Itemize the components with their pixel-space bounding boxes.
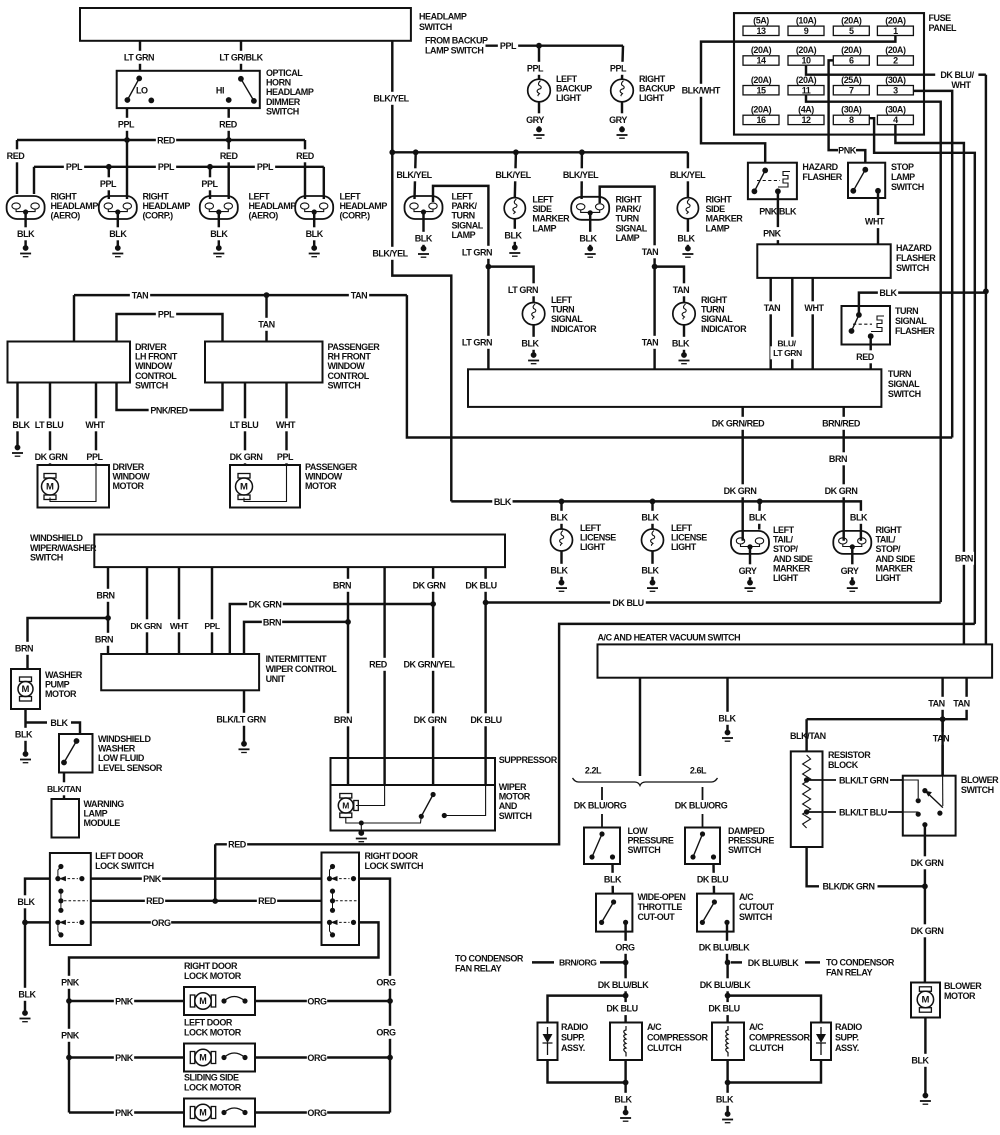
svg-text:LEFT: LEFT (551, 295, 573, 305)
wire DK GRN wiper switch to suppressor (432, 567, 434, 785)
svg-text:DK GRN: DK GRN (130, 621, 161, 631)
stop lamp switch (848, 163, 885, 198)
svg-text:BACKUP: BACKUP (556, 84, 592, 94)
hazard flasher (748, 163, 797, 200)
svg-text:LIGHT: LIGHT (876, 573, 902, 583)
left headlamp (corp) connector (295, 196, 333, 219)
svg-text:WIPER/WASHER: WIPER/WASHER (30, 543, 97, 553)
svg-text:PPL: PPL (158, 309, 175, 319)
fuse 16 (20A) (743, 115, 779, 124)
svg-text:15: 15 (756, 85, 766, 95)
svg-text:WHT: WHT (865, 217, 885, 227)
svg-text:RIGHT: RIGHT (616, 195, 643, 205)
ground right park/turn lamp (589, 213, 591, 249)
svg-text:PPL: PPL (201, 179, 218, 189)
svg-text:BLK: BLK (18, 989, 36, 999)
wire RED wiper switch to suppressor (383, 567, 385, 785)
svg-text:DK GRN: DK GRN (724, 486, 757, 496)
svg-text:DK BLU/BLK: DK BLU/BLK (598, 980, 649, 990)
svg-text:LT BLU: LT BLU (35, 420, 64, 430)
svg-text:RH FRONT: RH FRONT (328, 352, 372, 362)
svg-text:SWITCH: SWITCH (266, 106, 299, 116)
svg-text:RIGHT DOOR: RIGHT DOOR (184, 961, 238, 971)
svg-text:WHT: WHT (804, 303, 824, 313)
svg-text:BLK/LT BLU: BLK/LT BLU (839, 807, 887, 817)
svg-text:BLK: BLK (521, 338, 539, 348)
svg-text:DK BLU: DK BLU (606, 1004, 637, 1014)
svg-text:6: 6 (849, 56, 854, 66)
left tail/stop/side marker light connector (731, 531, 769, 554)
svg-text:(20A): (20A) (885, 45, 906, 55)
svg-text:BLK: BLK (614, 1094, 632, 1104)
svg-text:LIGHT: LIGHT (671, 542, 697, 552)
svg-text:BRN: BRN (829, 454, 847, 464)
right side marker lamp (677, 198, 698, 219)
svg-text:HORN: HORN (266, 78, 291, 88)
wire DK BLU/ORG to low pressure switch (601, 787, 603, 800)
svg-text:LEFT: LEFT (532, 195, 554, 205)
svg-text:ORG: ORG (151, 918, 171, 928)
svg-text:BLOWER: BLOWER (961, 775, 999, 785)
svg-text:2: 2 (893, 56, 898, 66)
wire PPL to right headlamp aero right term (33, 167, 35, 194)
svg-text:FAN RELAY: FAN RELAY (455, 964, 502, 974)
svg-text:HEADLAMP: HEADLAMP (266, 87, 314, 97)
svg-text:(4A): (4A) (798, 105, 814, 115)
svg-text:PNK/BLK: PNK/BLK (759, 207, 797, 217)
fuse 6 (20A) (833, 56, 869, 65)
svg-text:STOP: STOP (891, 162, 914, 172)
ground left park/turn lamp (422, 212, 424, 249)
svg-text:ORG: ORG (376, 1027, 396, 1037)
svg-text:MARKER: MARKER (706, 214, 744, 224)
svg-text:PNK: PNK (61, 1030, 80, 1040)
wire TAN to passenger window switch (265, 295, 267, 341)
fuse 11 (20A) (788, 86, 824, 95)
wire BLK from turn signal flasher to DK BLU/WHT riser (859, 293, 986, 315)
windshield wiper/washer switch (94, 535, 505, 568)
wire LT GRN from headlamp switch to dimmer (139, 41, 141, 71)
right tail/stop/side marker light connector (833, 531, 871, 554)
ground right side marker (687, 219, 689, 249)
wire BLK to left license light 2 (651, 501, 653, 529)
svg-text:BRN: BRN (263, 617, 281, 627)
svg-text:PNK: PNK (115, 996, 134, 1006)
svg-text:DK GRN/YEL: DK GRN/YEL (403, 659, 455, 669)
svg-text:MARKER: MARKER (532, 214, 570, 224)
svg-text:HAZARD: HAZARD (802, 162, 838, 172)
radio supp assy right (811, 1023, 831, 1061)
wire PNK from fuse 6 to stop lamp switch (829, 60, 838, 150)
svg-text:BLK/YEL: BLK/YEL (495, 170, 531, 180)
svg-text:OPTICAL: OPTICAL (266, 68, 303, 78)
svg-text:WINDOW: WINDOW (305, 472, 343, 482)
right headlamp (corp) connector (99, 196, 137, 219)
svg-text:LT GRN: LT GRN (773, 348, 802, 358)
wire DK BLU/ORG to damped pressure switch (702, 787, 704, 800)
svg-text:DK GRN: DK GRN (414, 715, 447, 725)
wire BLK tap to level sensor (26, 721, 48, 723)
svg-text:BRN: BRN (15, 643, 33, 653)
svg-text:DK GRN: DK GRN (413, 580, 446, 590)
ground left license light 2 (651, 551, 653, 583)
svg-text:TO CONDENSOR: TO CONDENSOR (826, 958, 895, 968)
svg-text:(CORP.): (CORP.) (340, 211, 371, 221)
svg-text:M: M (46, 482, 54, 493)
wire TAN to right turn indicator (655, 267, 684, 303)
svg-text:BRN/ORG: BRN/ORG (559, 958, 597, 968)
wire TAN to blower switch (941, 719, 943, 776)
resistor block (791, 751, 823, 847)
svg-text:LAMP: LAMP (452, 230, 476, 240)
wire PPL to left headlamp aero left term (209, 167, 211, 199)
svg-text:CLUTCH: CLUTCH (647, 1043, 681, 1053)
RED rail to headlamps (17, 139, 305, 141)
svg-text:A/C: A/C (739, 892, 754, 902)
svg-text:GRY: GRY (609, 115, 627, 125)
svg-text:MARKER: MARKER (876, 563, 914, 573)
DK BLU rail to blower circuit (486, 601, 941, 603)
svg-text:BLK: BLK (672, 338, 690, 348)
wire BLK/LT GRN resistor tap to blower switch (807, 779, 836, 781)
svg-text:BLK/YEL: BLK/YEL (563, 170, 599, 180)
svg-text:RIGHT: RIGHT (143, 192, 170, 202)
left radio suppressor jog (548, 996, 626, 1023)
windshield washer low fluid level sensor (59, 734, 93, 773)
wire LT GRN from left park/turn to indicator circuit (433, 186, 488, 267)
washer pump motor (11, 669, 40, 709)
svg-text:SIGNAL: SIGNAL (701, 314, 733, 324)
svg-text:LOW: LOW (628, 826, 649, 836)
wire RED from dimmer HI (227, 108, 229, 140)
driver window control switch (8, 342, 131, 383)
wire BLK/DK GRN resistor block to blower feed (807, 847, 819, 886)
wire BLK/TAN sensor to warning lamp module (63, 773, 65, 800)
passenger window control switch (205, 342, 323, 383)
wire BLK clutch to ground left (624, 1060, 626, 1113)
svg-text:BACKUP: BACKUP (639, 84, 675, 94)
svg-text:CONTROL: CONTROL (328, 371, 370, 381)
wire PPL from dimmer through to corp right term (126, 140, 128, 199)
svg-text:M: M (240, 482, 248, 493)
svg-text:DK GRN/RED: DK GRN/RED (712, 418, 765, 428)
svg-text:PPL: PPL (500, 41, 517, 51)
left park/turn signal lamp connector (405, 196, 443, 219)
svg-text:ORG: ORG (307, 996, 327, 1006)
svg-text:RED: RED (369, 659, 388, 669)
wire PNK to left door lock motor (69, 1056, 184, 1058)
svg-text:MODULE: MODULE (84, 818, 121, 828)
svg-text:A/C: A/C (749, 1022, 764, 1032)
svg-text:SLIDING SIDE: SLIDING SIDE (184, 1073, 239, 1083)
svg-text:BLK: BLK (579, 233, 597, 243)
svg-text:WIDE-OPEN: WIDE-OPEN (638, 892, 686, 902)
svg-text:BLK: BLK (911, 1055, 929, 1065)
svg-text:BLK: BLK (749, 512, 767, 522)
wire TAN hazard sw to turn signal switch (769, 278, 771, 369)
svg-text:BLK/TAN: BLK/TAN (790, 731, 826, 741)
svg-text:TAN: TAN (928, 698, 944, 708)
wire BRN wiper switch to suppressor (347, 567, 349, 785)
svg-text:PPL: PPL (204, 621, 220, 631)
svg-text:(20A): (20A) (751, 45, 772, 55)
svg-text:DIMMER: DIMMER (266, 97, 301, 107)
svg-text:PPL: PPL (277, 452, 294, 462)
fuse 10 (20A) (788, 56, 824, 65)
svg-text:LAMP: LAMP (891, 172, 915, 182)
svg-text:TURN: TURN (452, 211, 475, 221)
svg-text:BRN: BRN (955, 553, 973, 563)
fuse 9 (10A) (788, 26, 824, 35)
svg-text:BLK/DK GRN: BLK/DK GRN (823, 882, 875, 892)
svg-text:PASSENGER: PASSENGER (305, 462, 358, 472)
ground right headlamp aero (24, 212, 26, 248)
svg-text:MOTOR: MOTOR (113, 481, 145, 491)
svg-text:TAN: TAN (953, 698, 969, 708)
wire PNK to right door lock motor (69, 1000, 184, 1002)
svg-text:GRY: GRY (526, 115, 544, 125)
svg-text:WIPER: WIPER (499, 782, 527, 792)
svg-text:RED: RED (157, 135, 176, 145)
svg-text:M: M (199, 996, 207, 1006)
svg-text:SWITCH: SWITCH (628, 845, 661, 855)
svg-text:RESISTOR: RESISTOR (828, 750, 871, 760)
svg-text:14: 14 (756, 56, 766, 66)
svg-text:SWITCH: SWITCH (891, 182, 924, 192)
svg-text:LEFT: LEFT (671, 523, 693, 533)
wire DK GRN/RED from turn signal switch to left tail (741, 407, 743, 541)
svg-text:BLK: BLK (210, 229, 228, 239)
wire BLK clutch to ground right (726, 1060, 728, 1114)
svg-text:TAN: TAN (673, 285, 689, 295)
svg-text:STOP/: STOP/ (876, 544, 902, 554)
DK GRN rail to control unit (230, 604, 433, 654)
svg-text:PARK/: PARK/ (452, 201, 478, 211)
wire DK GRN blower switch to blower motor (924, 825, 926, 983)
wire BLK to left tail right terminal (758, 501, 761, 529)
svg-text:LT BLU: LT BLU (230, 420, 259, 430)
svg-text:COMPRESSOR: COMPRESSOR (749, 1033, 810, 1043)
wire LT GR/BLK from headlamp switch to dimmer (240, 41, 242, 71)
svg-text:RED: RED (228, 840, 247, 850)
wire TAN to driver window switch (73, 295, 75, 341)
svg-text:TO CONDENSOR: TO CONDENSOR (455, 954, 524, 964)
svg-text:ORG: ORG (307, 1053, 327, 1063)
wire PNK row (91, 877, 322, 879)
svg-text:(10A): (10A) (796, 16, 817, 26)
PPL rail to headlamps (34, 166, 324, 168)
svg-text:BLK/TAN: BLK/TAN (47, 784, 81, 794)
passenger window motor (230, 465, 300, 508)
svg-text:STOP/: STOP/ (773, 544, 799, 554)
optical horn headlamp dimmer switch (117, 71, 260, 108)
svg-text:DK GRN: DK GRN (825, 486, 858, 496)
ground left license light (560, 551, 562, 583)
svg-text:(5A): (5A) (753, 16, 769, 26)
svg-text:ORG: ORG (376, 977, 396, 987)
svg-text:ORG: ORG (615, 942, 635, 952)
svg-text:PPL: PPL (86, 452, 103, 462)
left door lock switch contacts (55, 876, 60, 881)
svg-text:(30A): (30A) (841, 105, 862, 115)
svg-text:DK BLU/: DK BLU/ (940, 70, 974, 80)
svg-text:(25A): (25A) (841, 75, 862, 85)
svg-text:HI: HI (216, 86, 224, 96)
svg-text:PRESSURE: PRESSURE (728, 836, 774, 846)
svg-text:2.2L: 2.2L (585, 766, 602, 776)
fuse 2 (20A) (877, 56, 913, 65)
svg-text:BLK: BLK (109, 229, 127, 239)
svg-text:LT GRN: LT GRN (462, 247, 492, 257)
svg-text:4: 4 (893, 115, 898, 125)
svg-text:LEFT: LEFT (249, 192, 271, 202)
svg-text:BRN: BRN (333, 580, 351, 590)
svg-text:CLUTCH: CLUTCH (749, 1043, 783, 1053)
PPL link between window switches (117, 314, 223, 342)
wire ORG right door switch to motors (359, 879, 390, 1113)
svg-text:PPL: PPL (100, 179, 117, 189)
wire from fuse 11 to DK BLU rail (806, 95, 941, 602)
driver window motor (38, 465, 110, 508)
wire DK BLU/WHT down right side to a/c vacuum switch (985, 75, 987, 645)
svg-text:SUPPRESSOR: SUPPRESSOR (499, 755, 558, 765)
svg-text:(20A): (20A) (796, 75, 817, 85)
wire BLK/LT BLU resistor tap to blower switch (807, 811, 836, 813)
wire PPL to right backup light (622, 46, 623, 79)
svg-text:WINDOW: WINDOW (328, 361, 366, 371)
ground left headlamp aero (218, 212, 220, 248)
svg-text:TURN: TURN (701, 305, 724, 315)
radio supp assy left (538, 1023, 558, 1061)
svg-text:M: M (342, 801, 349, 811)
svg-text:WASHER: WASHER (98, 744, 136, 754)
svg-text:WINDOW: WINDOW (135, 361, 173, 371)
svg-text:SIGNAL: SIGNAL (895, 316, 927, 326)
wire BLK/YEL jog down to BLK rail (392, 152, 451, 501)
svg-text:PRESSURE: PRESSURE (628, 836, 674, 846)
svg-text:DK GRN: DK GRN (35, 452, 68, 462)
svg-text:SWITCH: SWITCH (728, 845, 761, 855)
wire BLK/YEL to right park/turn lamp (580, 152, 583, 199)
BRN rail to control unit (244, 622, 348, 654)
svg-text:WARNING: WARNING (84, 799, 125, 809)
ground wiper motor (360, 823, 362, 831)
left side marker lamp (504, 198, 525, 219)
svg-text:M: M (199, 1053, 207, 1063)
svg-text:SIDE: SIDE (532, 204, 552, 214)
svg-text:LIGHT: LIGHT (580, 542, 606, 552)
wire BLK/YEL from headlamp switch (391, 41, 393, 153)
svg-text:INDICATOR: INDICATOR (701, 324, 747, 334)
TAN rail from fuse 3 to window switches (407, 295, 952, 437)
svg-text:DK BLU: DK BLU (470, 715, 501, 725)
wire BLK pressure switch to wide-open throttle cutout (611, 864, 614, 894)
fuse 15 (20A) (743, 86, 779, 95)
svg-text:BLK: BLK (17, 897, 35, 907)
svg-text:LEFT: LEFT (773, 525, 795, 535)
wire from fuse 3 to TAN rail (914, 91, 953, 438)
svg-text:TAN: TAN (642, 337, 658, 347)
svg-text:WASHER: WASHER (45, 670, 83, 680)
svg-text:LT GRN: LT GRN (462, 337, 492, 347)
wire RED to right headlamp aero (16, 140, 18, 194)
wire ORG row (91, 921, 322, 923)
svg-text:SUPP.: SUPP. (561, 1033, 585, 1043)
svg-text:DK GRN: DK GRN (911, 926, 944, 936)
wire BLK/YEL to right side marker lamp (687, 152, 689, 197)
wire ORG right door lock motor (255, 1000, 390, 1002)
wire to engine variant brace (639, 678, 641, 776)
svg-text:PPL: PPL (118, 119, 135, 129)
svg-text:BLK/YEL: BLK/YEL (396, 170, 432, 180)
intermittent wiper control unit (101, 654, 259, 690)
svg-text:DK BLU/ORG: DK BLU/ORG (574, 801, 627, 811)
svg-text:BLK/YEL: BLK/YEL (372, 248, 408, 258)
svg-text:PNK: PNK (838, 145, 857, 155)
svg-text:PNK: PNK (143, 874, 162, 884)
wiper park switch (431, 792, 436, 797)
wire PPL from dimmer LO (126, 108, 128, 140)
svg-text:11: 11 (802, 85, 811, 95)
svg-text:SWITCH: SWITCH (419, 22, 452, 32)
svg-text:LT GRN: LT GRN (124, 52, 154, 62)
svg-text:HEADLAMP: HEADLAMP (340, 201, 388, 211)
svg-text:LAMP SWITCH: LAMP SWITCH (425, 46, 483, 56)
svg-text:AND SIDE: AND SIDE (876, 554, 916, 564)
svg-text:LICENSE: LICENSE (671, 533, 707, 543)
wide-open throttle cut-out (596, 894, 632, 932)
fuse 3 (30A) (877, 86, 913, 95)
svg-text:LO: LO (136, 86, 148, 96)
svg-text:DK BLU: DK BLU (465, 580, 496, 590)
wire WHT hazard sw to turn signal switch (811, 278, 813, 369)
svg-text:M: M (921, 995, 929, 1006)
wire DK BLU/BLK down left clutch branch (624, 962, 626, 1022)
svg-text:MOTOR: MOTOR (499, 792, 531, 802)
svg-text:GRY: GRY (739, 566, 757, 576)
svg-text:BLK: BLK (494, 497, 512, 507)
svg-text:2.6L: 2.6L (690, 766, 707, 776)
svg-text:TURN: TURN (616, 214, 639, 224)
svg-text:BLK: BLK (504, 230, 522, 240)
wire RED down to left headlamp corp (304, 140, 306, 199)
svg-text:LEVEL SENSOR: LEVEL SENSOR (98, 763, 163, 773)
svg-text:SWITCH: SWITCH (896, 263, 929, 273)
svg-text:PNK: PNK (763, 229, 782, 239)
svg-text:PPL: PPL (257, 162, 274, 172)
svg-text:DK BLU/BLK: DK BLU/BLK (699, 942, 750, 952)
svg-text:PNK: PNK (61, 977, 80, 987)
svg-text:DK BLU: DK BLU (697, 874, 728, 884)
ground right headlamp corp (117, 212, 119, 248)
svg-text:FLASHER: FLASHER (896, 253, 936, 263)
left license light 2 (642, 529, 664, 551)
svg-text:9: 9 (804, 26, 809, 36)
svg-text:BLK: BLK (550, 565, 568, 575)
wire TAN second from a/c switch (807, 678, 967, 720)
wire LT BLU/DK GRN driver switch to motor (49, 383, 51, 466)
svg-text:PUMP: PUMP (45, 680, 70, 690)
svg-text:LICENSE: LICENSE (580, 533, 616, 543)
svg-text:RED: RED (296, 151, 315, 161)
svg-text:COMPRESSOR: COMPRESSOR (647, 1033, 708, 1043)
svg-text:CUT-OUT: CUT-OUT (638, 912, 676, 922)
svg-text:HEADLAMP: HEADLAMP (51, 201, 99, 211)
wire RED from flasher to turn signal switch (869, 336, 871, 369)
svg-text:PNK/RED: PNK/RED (150, 405, 188, 415)
svg-text:(AERO): (AERO) (51, 211, 81, 221)
svg-text:DK BLU: DK BLU (612, 598, 643, 608)
